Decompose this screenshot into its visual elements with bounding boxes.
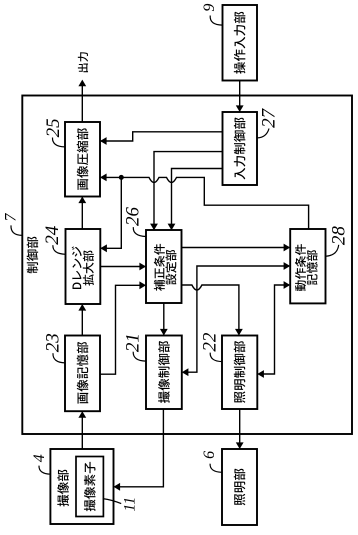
svg-text:7: 7 <box>2 213 19 222</box>
svg-text:4: 4 <box>31 454 48 462</box>
svg-text:26: 26 <box>123 207 144 227</box>
svg-text:9: 9 <box>201 4 218 12</box>
svg-text:23: 23 <box>42 333 63 352</box>
svg-text:24: 24 <box>42 225 63 245</box>
svg-text:11: 11 <box>121 497 138 512</box>
svg-text:6: 6 <box>201 451 218 459</box>
svg-text:22: 22 <box>199 332 220 352</box>
svg-text:25: 25 <box>43 118 64 137</box>
svg-text:28: 28 <box>328 226 349 246</box>
svg-text:27: 27 <box>259 107 280 128</box>
svg-text:21: 21 <box>123 333 144 352</box>
